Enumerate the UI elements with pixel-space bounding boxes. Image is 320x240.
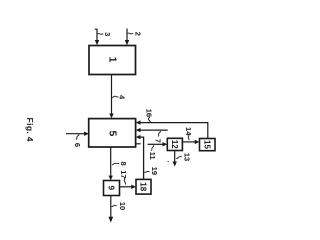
svg-text:10: 10 <box>118 202 127 210</box>
svg-text:14: 14 <box>184 127 193 136</box>
svg-text:8: 8 <box>119 162 128 166</box>
arrowhead into block 1 right input <box>125 40 129 45</box>
block 1 <box>89 46 136 75</box>
block 9 <box>104 181 120 196</box>
svg-text:5: 5 <box>106 130 118 136</box>
svg-text:6: 6 <box>73 143 82 147</box>
arrowhead into block 18 <box>131 185 136 189</box>
svg-text:2: 2 <box>133 32 142 36</box>
arrowhead wire7 into block 5 <box>136 128 141 132</box>
block 12 <box>167 138 182 150</box>
wire 4 from block 1 to block 5 <box>111 75 113 115</box>
label 17 <box>119 170 128 184</box>
wire 19 feedback from block 18 top into block 5 right <box>140 137 144 179</box>
svg-text:Fig. 4: Fig. 4 <box>25 118 35 142</box>
label 3 <box>98 32 112 36</box>
wire 17 from block 9 to block 18 <box>120 186 132 188</box>
arrowhead wire14 into block 15 <box>195 140 200 144</box>
wire 16 from block 15 top into block 5 right <box>140 123 208 139</box>
svg-text:16: 16 <box>145 109 154 117</box>
label 19 <box>144 167 159 175</box>
wire input arrow into block 1 (right) <box>126 29 128 41</box>
svg-text:7: 7 <box>154 139 163 143</box>
block 15 <box>200 139 216 151</box>
label 13 <box>176 153 192 161</box>
label 16 <box>145 109 154 122</box>
wire 11 branch into block 12 <box>148 143 163 145</box>
svg-text:3: 3 <box>103 32 112 36</box>
arrowhead into block 5 left <box>84 132 89 136</box>
arrowhead wire19 into block 5 <box>136 135 141 139</box>
svg-text:15: 15 <box>202 140 211 149</box>
label 7 <box>154 131 163 143</box>
wire input arrow into block 1 (left) <box>95 29 97 40</box>
stray mark near wire 13 <box>167 160 169 163</box>
svg-text:11: 11 <box>148 152 157 160</box>
arrowhead wire10 down <box>108 217 113 223</box>
label 6 <box>73 134 82 147</box>
wire 7 output from block 5 right <box>140 129 168 131</box>
svg-text:1: 1 <box>106 57 118 63</box>
wire 8 from block 5 bottom to block 9 <box>110 147 112 176</box>
block 18 <box>136 179 151 194</box>
wire 10 output arrow below block 9 <box>110 196 112 218</box>
arrowhead wire16 into block 5 <box>136 120 141 124</box>
label 8 <box>112 162 128 166</box>
label 11 <box>148 145 157 159</box>
svg-text:17: 17 <box>119 170 128 178</box>
svg-text:19: 19 <box>150 167 159 175</box>
label 14 <box>184 127 193 140</box>
label 2 <box>128 32 143 36</box>
arrowhead into block 5 top <box>109 114 113 119</box>
label 10 <box>112 202 127 210</box>
arrowhead into block 1 left input <box>95 40 99 45</box>
wire 14 from block 12 to block 15 <box>182 141 195 143</box>
arrowhead into block 9 top <box>109 176 113 181</box>
svg-text:18: 18 <box>139 182 148 191</box>
wire 11 stub from block 5 right edge <box>136 143 141 145</box>
label 4 <box>112 95 127 100</box>
svg-text:12: 12 <box>170 140 179 149</box>
wire 13 output arrow below block 12 <box>174 151 176 163</box>
block 5 <box>89 119 136 147</box>
arrowhead wire11 into block 12 <box>163 142 168 146</box>
svg-text:9: 9 <box>106 186 115 191</box>
svg-text:13: 13 <box>183 153 192 161</box>
wire 6 input into block 5 left <box>66 133 85 135</box>
arrowhead wire13 down <box>173 162 177 167</box>
